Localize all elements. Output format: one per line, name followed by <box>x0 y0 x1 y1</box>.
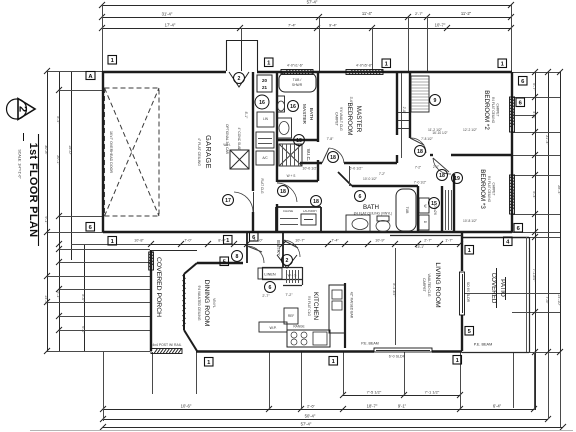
entry west wall stub <box>246 232 248 263</box>
svg-text:16: 16 <box>290 104 296 110</box>
svg-text:MASTER: MASTER <box>301 104 307 125</box>
top extension line x372 <box>372 28 374 70</box>
bedroom3 west wall <box>453 174 455 232</box>
keynote circle 6 <box>265 282 276 293</box>
left extension line y262 <box>59 262 150 264</box>
svg-text:9: 9 <box>434 98 437 104</box>
svg-text:57'-4": 57'-4" <box>301 422 312 427</box>
keynote circle 8 <box>232 251 243 262</box>
svg-text:7'-4": 7'-4" <box>288 23 297 28</box>
svg-text:10'-7": 10'-7" <box>295 239 305 243</box>
svg-text:5'-4": 5'-4" <box>532 191 536 199</box>
svg-text:12'-2 1/2": 12'-2 1/2" <box>463 128 478 132</box>
top extension line left <box>102 5 104 71</box>
svg-text:FLAT CLG: FLAT CLG <box>260 179 264 194</box>
garage right wall <box>252 72 254 191</box>
svg-text:9'-4": 9'-4" <box>329 23 338 28</box>
svg-text:4'0x5'8: 4'0x5'8 <box>511 189 515 199</box>
svg-text:8'4 FLAT CEILING: 8'4 FLAT CEILING <box>487 176 491 203</box>
utility east wall <box>417 186 419 232</box>
svg-text:7'-1 1/2": 7'-1 1/2" <box>425 390 440 395</box>
left dim vertical x71 <box>71 71 73 260</box>
fireplace bump-out <box>226 40 258 71</box>
svg-text:6'-0 SLDR: 6'-0 SLDR <box>389 355 406 359</box>
svg-text:8'4 FLAT CEILING (VINYL): 8'4 FLAT CEILING (VINYL) <box>354 212 392 216</box>
svg-text:BEDROOM: BEDROOM <box>346 102 353 135</box>
master bath toilet <box>277 96 285 112</box>
keynote circle 18 <box>437 170 448 181</box>
hall bath sink <box>346 215 370 232</box>
exterior wall top (east of fireplace) <box>257 71 512 73</box>
exterior wall top (west of fireplace) <box>103 71 226 73</box>
hall ext line x401 <box>401 73 403 158</box>
svg-text:TUB /: TUB / <box>293 78 302 82</box>
svg-text:KITCHEN: KITCHEN <box>312 292 319 320</box>
dining north wall <box>197 262 243 264</box>
svg-text:20'-1": 20'-1" <box>56 155 60 165</box>
washer dryer <box>419 198 429 213</box>
svg-text:7'-6": 7'-6" <box>545 296 549 304</box>
right extension line y97 <box>512 97 560 99</box>
dining bay window hatch <box>183 273 186 276</box>
keynote box 1 <box>108 56 117 65</box>
svg-text:BEDROOM *2: BEDROOM *2 <box>483 90 490 130</box>
keynote box 5 <box>220 257 229 266</box>
left extension line y276 <box>47 276 150 278</box>
porch west wall window hatch <box>149 252 154 270</box>
covered porch north line <box>151 250 197 252</box>
right extension line y312 <box>512 312 560 314</box>
WIC south wall <box>277 180 318 182</box>
keynote circle 16 <box>288 101 299 112</box>
bottom extension vertical x196 <box>196 352 198 394</box>
svg-text:10'-0 1/2": 10'-0 1/2" <box>363 177 378 181</box>
svg-text:11'-4": 11'-4" <box>362 11 373 16</box>
keynote box 5 <box>465 327 474 336</box>
WIC closet box <box>279 144 302 166</box>
svg-text:10'-0 1/2": 10'-0 1/2" <box>302 167 318 171</box>
svg-text:CARPET: CARPET <box>496 104 500 117</box>
keynote circle 16 <box>255 95 269 109</box>
svg-text:2'-7": 2'-7" <box>415 11 424 16</box>
svg-text:2'-6": 2'-6" <box>307 404 316 409</box>
bedroom2 west wall <box>409 72 411 138</box>
svg-text:CARPET: CARPET <box>422 278 426 292</box>
hall closet shelves <box>398 120 409 122</box>
sheet border bottom faint <box>30 430 573 432</box>
svg-text:18: 18 <box>313 199 319 205</box>
window bedroom3 right <box>510 175 515 214</box>
svg-text:10'-6": 10'-6" <box>181 404 192 409</box>
keynote box 1 <box>453 356 462 365</box>
right extension line y115 <box>512 115 535 117</box>
keynote circle 19 <box>452 173 463 184</box>
bottom dim row y419 <box>103 419 548 421</box>
svg-text:VINYL: VINYL <box>212 298 216 308</box>
keynote box 1 <box>265 58 274 67</box>
top dimension line row3 17'-4 / 7'-4 / 9'-4 / 10'-7 <box>102 28 511 30</box>
kitchen bar wall <box>344 283 346 348</box>
master bath tub <box>279 73 316 92</box>
svg-text:SCALE: 1/4"=1'-0": SCALE: 1/4"=1'-0" <box>18 149 22 179</box>
patio label underline <box>496 268 498 308</box>
keynote box 1 <box>465 246 474 255</box>
svg-text:COVERED: COVERED <box>490 273 497 304</box>
left dim vertical x47 <box>47 71 49 352</box>
svg-text:LAUNDRY: LAUNDRY <box>303 209 317 213</box>
hall bath toilet <box>376 221 390 232</box>
pantry shelves <box>286 270 288 283</box>
bottom dim row y427 <box>103 427 563 429</box>
top extension line at fireplace <box>241 28 243 71</box>
svg-text:6: 6 <box>269 285 272 291</box>
window master bedroom top <box>346 70 383 75</box>
svg-text:20: 20 <box>262 78 268 83</box>
pantry walls <box>262 267 302 269</box>
water closet WP box <box>259 322 287 332</box>
right extension line y155 <box>512 155 560 157</box>
left extension line y90 <box>59 90 103 92</box>
svg-text:14'-10": 14'-10" <box>557 294 561 306</box>
covered porch west wall <box>150 250 152 351</box>
svg-text:9'-1": 9'-1" <box>398 404 407 409</box>
master bath / WIC east wall <box>317 72 319 142</box>
covered patio south edge <box>462 352 529 354</box>
keynote box 1 <box>108 237 117 246</box>
svg-text:16'-0": 16'-0" <box>68 145 72 155</box>
svg-text:50'-4": 50'-4" <box>305 414 316 419</box>
svg-text:TUB: TUB <box>405 207 409 215</box>
svg-text:LIN: LIN <box>263 117 269 121</box>
keynote box 6 <box>514 224 523 233</box>
svg-text:8'4 FLAT CEILING: 8'4 FLAT CEILING <box>491 97 495 124</box>
svg-text:15'-1": 15'-1" <box>416 245 425 249</box>
svg-text:DINING ROOM: DINING ROOM <box>203 280 210 327</box>
svg-text:4" CONC SLAB: 4" CONC SLAB <box>237 128 241 152</box>
master bedroom door <box>322 148 329 163</box>
bottom extension verticals <box>103 352 105 421</box>
bottom dim row y409 <box>103 409 534 411</box>
entry/kitchen wall <box>282 232 284 267</box>
svg-text:REF: REF <box>288 314 294 318</box>
svg-text:7'-8 1/2": 7'-8 1/2" <box>421 137 433 141</box>
svg-text:57'-4": 57'-4" <box>307 0 318 5</box>
svg-text:8'-4": 8'-4" <box>56 116 60 124</box>
svg-text:42" RAISED BAR: 42" RAISED BAR <box>350 292 354 319</box>
right extension line y232 <box>512 232 560 234</box>
keynote box A <box>86 72 95 80</box>
hall closet small box <box>257 112 274 127</box>
keynote circle 17 <box>223 195 234 206</box>
north arrow compass symbol <box>7 99 36 120</box>
dining bay window wall <box>183 274 185 330</box>
svg-text:2: 2 <box>286 258 289 264</box>
keynote box 6 <box>519 77 528 86</box>
garage-house door arc <box>234 192 253 212</box>
svg-text:4x4 POST W/ RAIL: 4x4 POST W/ RAIL <box>152 343 181 347</box>
hall closet box3 <box>256 151 274 165</box>
svg-text:17: 17 <box>225 198 231 204</box>
svg-text:10'-8": 10'-8" <box>134 239 144 243</box>
keynote circle 18 <box>415 146 426 157</box>
keynote circle 9 <box>430 95 441 106</box>
svg-text:30'-8": 30'-8" <box>44 145 48 155</box>
bottom extension vertical x152 <box>152 352 154 394</box>
keynote circle 18 <box>328 152 339 163</box>
keynote box 6 <box>516 98 525 107</box>
svg-text:7'-0 1/2": 7'-0 1/2" <box>414 181 427 185</box>
keynote circle 6 <box>355 191 366 202</box>
svg-text:2: 2 <box>238 76 241 82</box>
svg-text:9'-1": 9'-1" <box>44 216 48 224</box>
svg-text:6'-4": 6'-4" <box>493 404 502 409</box>
left extension line y232 <box>47 232 103 234</box>
left extension line y289 <box>59 289 150 291</box>
bottom extension vertical x513 <box>513 352 515 408</box>
dining-entry door arc <box>247 246 262 252</box>
bedroom2 closet rod <box>411 76 429 112</box>
svg-text:P.E. BEAM: P.E. BEAM <box>474 343 493 347</box>
svg-text:9'4 VAULT CLG: 9'4 VAULT CLG <box>339 107 343 131</box>
keynote circle 18 <box>294 135 305 146</box>
svg-text:1'-7": 1'-7" <box>445 239 453 243</box>
svg-text:6: 6 <box>359 194 362 200</box>
keynote circle 2 <box>234 73 245 84</box>
top extension line x319 <box>319 17 321 71</box>
svg-text:7'-2": 7'-2" <box>285 293 293 297</box>
keynote circle 2 <box>282 255 293 266</box>
living room east wall <box>461 232 463 271</box>
svg-text:4'-0"x1'-6": 4'-0"x1'-6" <box>287 64 304 68</box>
svg-text:ENTRY: ENTRY <box>276 240 281 256</box>
top dimension line row2 31'-4 / 11'-4 / 2'-7 / 11'-2 <box>102 17 511 19</box>
left extension line y302 <box>47 302 150 304</box>
patio mid extension line <box>464 293 560 295</box>
left extension line y330 <box>59 330 150 332</box>
svg-text:SHWR: SHWR <box>292 83 303 87</box>
svg-text:31'-4": 31'-4" <box>162 12 173 17</box>
hall bath corner diagonal <box>338 172 352 186</box>
window bedroom2 right <box>510 97 515 132</box>
svg-text:SO 6'0 SLDR: SO 6'0 SLDR <box>466 282 470 303</box>
pantry triangle keynote <box>277 255 297 268</box>
svg-text:2'-7": 2'-7" <box>262 294 270 298</box>
exterior wall garage left <box>102 71 104 232</box>
keynote box 6 <box>86 223 95 232</box>
right extension line y352 <box>512 352 560 354</box>
svg-text:4" FLAT CEILING: 4" FLAT CEILING <box>197 138 201 166</box>
kitchen range counter <box>287 330 330 347</box>
bedroom3 south wall <box>462 231 512 233</box>
left extension line y249 <box>59 249 150 251</box>
window master bath top <box>281 70 313 75</box>
svg-text:14'-4": 14'-4" <box>44 295 48 305</box>
svg-text:4'-8": 4'-8" <box>532 111 536 119</box>
svg-text:17'-4": 17'-4" <box>165 23 176 28</box>
keynote box 1 <box>498 59 507 68</box>
keynote circle 18 <box>278 186 289 197</box>
left extension line y216 <box>59 216 103 218</box>
svg-text:2: 2 <box>17 106 29 112</box>
master bath south wall / WIC north wall <box>277 139 318 141</box>
svg-text:COVERED PORCH: COVERED PORCH <box>155 257 162 317</box>
svg-text:8: 8 <box>236 254 239 260</box>
svg-text:W + S: W + S <box>288 274 297 278</box>
svg-text:BEDROOM *3: BEDROOM *3 <box>479 169 486 209</box>
window porch south <box>151 349 182 354</box>
left extension line y351 <box>47 351 150 353</box>
right extension line y175 <box>512 175 560 177</box>
right dim vertical x560 <box>560 72 562 427</box>
south wall of upper section <box>103 231 462 233</box>
right extension line y132 <box>512 132 560 134</box>
svg-text:CARPET: CARPET <box>335 112 339 126</box>
svg-text:CARPET: CARPET <box>492 183 496 196</box>
top extension line x408 <box>408 17 410 71</box>
interior vertical dim living <box>395 248 397 345</box>
svg-text:PATIO: PATIO <box>499 279 506 297</box>
svg-text:LINEN: LINEN <box>264 273 275 277</box>
svg-text:10'-7": 10'-7" <box>435 23 446 28</box>
svg-text:16: 16 <box>259 100 265 106</box>
svg-text:8'-0": 8'-0" <box>81 294 85 302</box>
keynote circle 18 <box>311 196 322 207</box>
svg-text:BATH: BATH <box>308 108 314 121</box>
powder room shelf lines <box>280 218 298 220</box>
svg-text:6'-7": 6'-7" <box>532 83 536 91</box>
svg-text:11'-2": 11'-2" <box>461 11 472 16</box>
living room north header <box>390 235 462 237</box>
hall closet box2 <box>256 132 274 148</box>
svg-text:A/C: A/C <box>262 156 268 160</box>
right extension line y214 <box>512 214 560 216</box>
entry front door arc <box>283 240 298 248</box>
svg-text:4'-0"x5'-8": 4'-0"x5'-8" <box>356 64 373 68</box>
svg-text:BATH: BATH <box>363 204 379 211</box>
svg-text:7'-0": 7'-0" <box>184 239 192 243</box>
fireplace triangle keynote <box>229 72 249 87</box>
bedroom3 door <box>433 158 449 172</box>
hall bath north wall <box>352 185 418 187</box>
water heater platform <box>230 150 249 169</box>
keynote box 1 <box>329 357 338 366</box>
dining bay upper diagonal <box>184 263 197 274</box>
interior dim line y244 <box>151 244 460 246</box>
keynote box 6 <box>250 233 259 242</box>
keynote box 1 <box>205 358 214 367</box>
svg-text:GARAGE: GARAGE <box>204 135 213 169</box>
title underline <box>38 134 40 246</box>
kitchen island counter <box>329 285 345 333</box>
svg-text:4'0x5'8: 4'0x5'8 <box>511 109 515 119</box>
svg-text:21'-4": 21'-4" <box>545 135 549 145</box>
keynote box 1 <box>224 236 233 245</box>
svg-text:7'-13/4": 7'-13/4" <box>532 269 536 282</box>
svg-text:1st FLOOR PLAN: 1st FLOOR PLAN <box>27 143 39 238</box>
svg-text:11'-2 1/2": 11'-2 1/2" <box>428 128 443 132</box>
left extension line y71 <box>47 71 103 73</box>
closet keynote boxes 20 21 <box>257 75 272 92</box>
bedroom2 door <box>410 138 424 145</box>
linen closet entry <box>258 268 282 279</box>
bedroom3 closet shelves <box>445 190 447 230</box>
master bedroom east wall <box>396 72 398 135</box>
refrigerator <box>284 308 298 324</box>
svg-text:10'-8 1/2": 10'-8 1/2" <box>463 219 478 223</box>
bottom dim row y395 <box>343 395 460 397</box>
svg-text:9'4 FLAT CLG: 9'4 FLAT CLG <box>307 296 311 316</box>
svg-text:28'-4": 28'-4" <box>557 185 561 195</box>
right extension line y237 <box>512 237 560 239</box>
master bath west wall <box>276 72 278 182</box>
svg-text:8'-4 3/4": 8'-4 3/4" <box>392 283 396 297</box>
svg-text:18: 18 <box>296 138 302 144</box>
svg-text:W.I.C.: W.I.C. <box>306 149 311 162</box>
svg-text:18'-7": 18'-7" <box>367 404 378 409</box>
master bath vanity <box>277 118 292 138</box>
hall bath tub <box>396 189 416 231</box>
svg-text:2'-0": 2'-0" <box>433 165 439 169</box>
master bedroom south wall <box>300 162 322 164</box>
svg-text:7'-8": 7'-8" <box>327 137 335 141</box>
left dim vertical x59 <box>59 71 61 351</box>
svg-text:21: 21 <box>262 85 268 90</box>
right dim vertical x548 <box>548 72 550 419</box>
keynote box 4 <box>504 237 513 246</box>
right dim vertical x535 <box>535 72 537 410</box>
svg-text:6'-0": 6'-0" <box>81 326 85 334</box>
left extension line y244 <box>71 244 150 246</box>
svg-text:MASTER: MASTER <box>355 106 362 133</box>
svg-text:5'-1": 5'-1" <box>56 291 60 299</box>
dining bay lower diagonal <box>184 330 197 351</box>
powder room walls <box>276 206 321 208</box>
keynote box 1 <box>382 59 391 68</box>
exterior wall right (bedrooms) <box>511 72 513 232</box>
svg-text:9'4 VAULTED CEILING: 9'4 VAULTED CEILING <box>197 285 201 320</box>
svg-text:RANGE: RANGE <box>293 325 304 329</box>
svg-text:4'-10": 4'-10" <box>253 239 263 243</box>
covered patio north wall <box>462 237 529 239</box>
svg-text:LIVING ROOM: LIVING ROOM <box>434 262 441 308</box>
powder room fixture <box>301 214 316 225</box>
sliding door living east <box>460 272 465 315</box>
svg-text:3'-6": 3'-6" <box>349 97 353 105</box>
left dim vertical x84 <box>84 244 86 352</box>
svg-text:P.E. BEAM: P.E. BEAM <box>361 342 379 346</box>
svg-text:7'-2": 7'-2" <box>415 166 421 170</box>
svg-text:18: 18 <box>439 173 445 179</box>
svg-text:2'-7": 2'-7" <box>424 239 432 243</box>
top dimension line overall 57'-4 <box>102 5 511 7</box>
svg-text:10'-9": 10'-9" <box>375 239 385 243</box>
title top bar <box>23 133 25 141</box>
right extension line y72 <box>512 72 560 74</box>
svg-text:18: 18 <box>280 189 286 195</box>
svg-text:18: 18 <box>330 155 336 161</box>
svg-text:CHASE: CHASE <box>283 209 293 213</box>
svg-text:OPTIONAL 3rd CAR: OPTIONAL 3rd CAR <box>225 124 229 155</box>
svg-text:8'-0": 8'-0" <box>218 239 226 243</box>
svg-text:7'-4": 7'-4" <box>331 239 339 243</box>
interior vertical dim bath <box>349 166 351 186</box>
top extension line right <box>511 5 513 71</box>
svg-text:7'-5 1/2": 7'-5 1/2" <box>367 390 382 395</box>
svg-text:19: 19 <box>454 176 460 182</box>
svg-text:2'-8": 2'-8" <box>402 107 406 115</box>
keynote circle 15 <box>429 198 440 209</box>
svg-text:18: 18 <box>417 149 423 155</box>
